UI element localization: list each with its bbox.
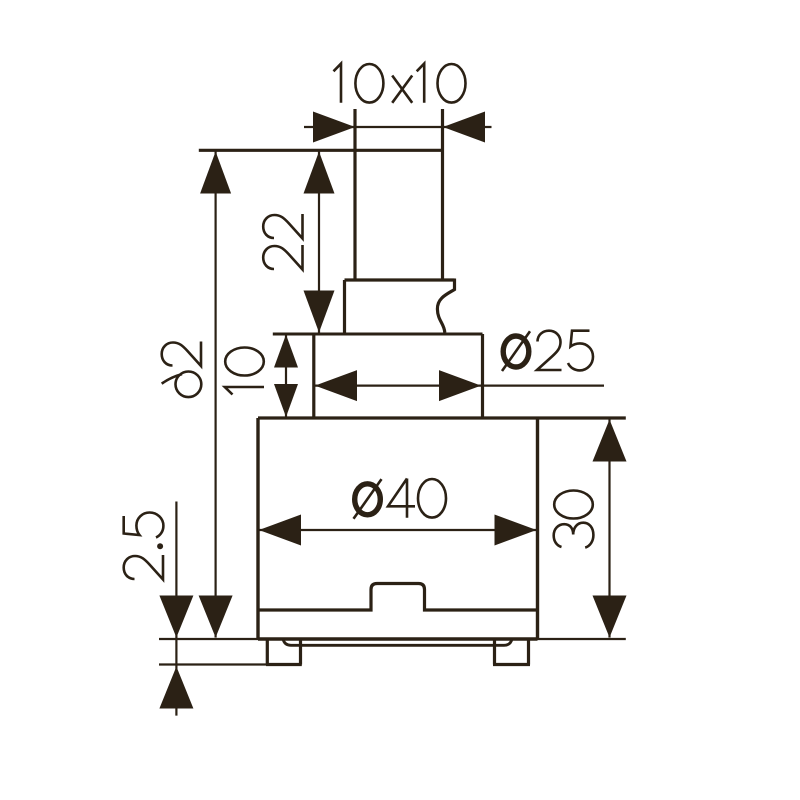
label 10 — [225, 387, 264, 395]
foot bottom extension line — [159, 663, 266, 665]
label 62 — [162, 372, 202, 398]
arrowhead d40 right — [495, 515, 537, 546]
left foot bottom edge — [266, 663, 302, 666]
body right edge — [536, 418, 539, 639]
right foot — [493, 639, 530, 665]
body left edge — [256, 418, 259, 639]
arrowhead 62 top — [200, 152, 231, 194]
neck box top edge with left extension line — [273, 333, 483, 336]
label 2.5 — [124, 555, 163, 580]
neck box right edge — [481, 334, 484, 418]
bottom plate with rounded ends — [283, 639, 512, 645]
left foot — [267, 639, 300, 665]
arrowhead 10 bottom — [274, 384, 298, 417]
label d40 — [354, 479, 382, 519]
collar left edge — [343, 280, 346, 333]
arrowhead 30 top — [593, 420, 627, 462]
dimension line 22 — [318, 152, 320, 333]
dimension line 62 — [215, 152, 217, 638]
arrowhead d40 left — [259, 515, 301, 546]
bottom extension line right — [538, 638, 626, 640]
label 10x10 — [334, 64, 342, 103]
dimension line 10 — [285, 335, 287, 418]
dimension line 30 — [608, 420, 610, 638]
arrowhead 10 top — [274, 335, 298, 368]
arrowhead 22 top — [304, 152, 335, 194]
body top edge with right extension line — [258, 416, 626, 419]
arrowhead 22 bottom — [304, 291, 335, 333]
stem top edge with left extension line — [199, 149, 443, 152]
arrowhead 10x10 left — [313, 112, 355, 143]
dimension line d25 with leader — [315, 385, 604, 387]
arrowhead 10x10 right — [443, 112, 485, 143]
label d25 — [502, 331, 530, 371]
collar top edge — [345, 278, 455, 281]
label 22 — [263, 245, 302, 270]
dimension line 2.5 — [175, 502, 177, 716]
neck box left edge — [312, 334, 315, 418]
collar right edge with break squiggle — [437, 279, 454, 333]
bottom extension line left — [159, 638, 258, 640]
stem left edge — [353, 109, 356, 280]
arrowhead 62 bottom — [199, 596, 233, 638]
arrowhead 2.5 upper — [159, 596, 193, 638]
body inner bottom line with key bump — [258, 584, 538, 611]
body bottom edge — [258, 637, 538, 640]
dimension line d40 — [259, 529, 537, 531]
stem right edge — [441, 109, 444, 280]
arrowhead d25 left — [315, 370, 357, 401]
arrowhead 2.5 lower — [159, 667, 193, 709]
arrowhead 30 bottom — [593, 596, 627, 638]
label 30 — [554, 523, 594, 548]
arrowhead d25 right — [439, 370, 481, 401]
dimension line 10x10 — [304, 126, 492, 128]
